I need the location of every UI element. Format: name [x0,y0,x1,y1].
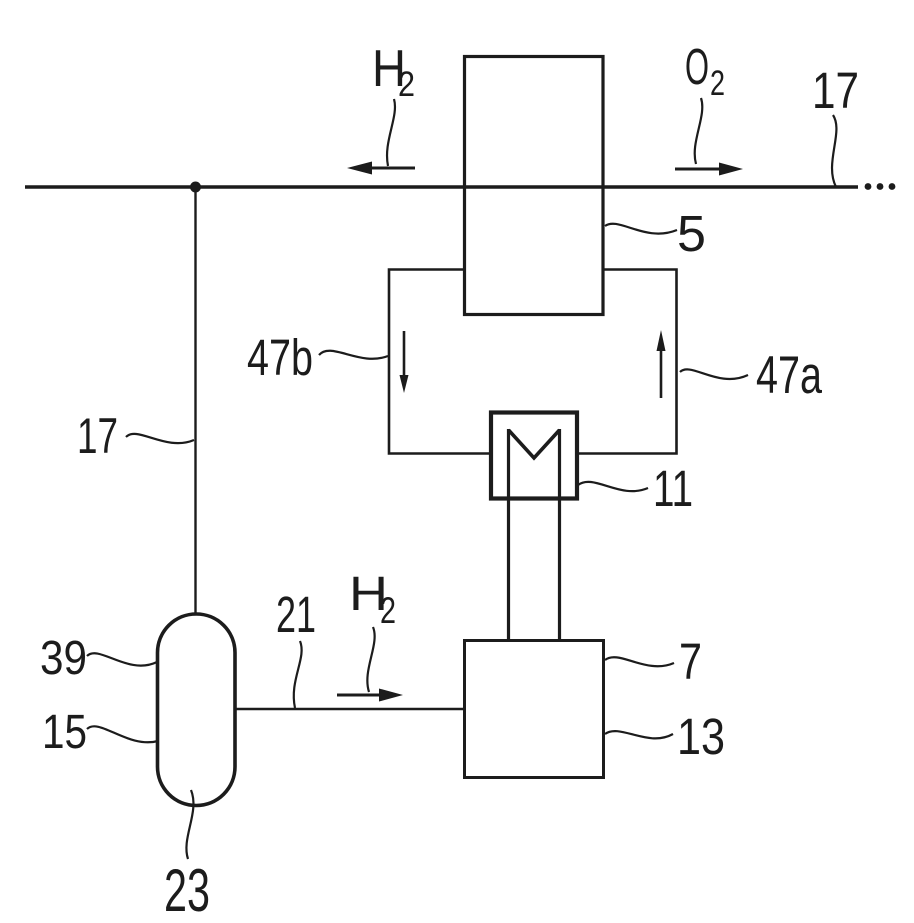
flow arrow O2 right (top) [675,163,743,176]
heat exchanger M symbol [509,430,560,458]
leader squiggle 15 [87,726,158,742]
svg-text:7: 7 [679,633,702,690]
leader squiggle H2 top [387,99,395,166]
wire cooling loop left 47b [389,270,489,454]
svg-text:21: 21 [276,586,316,643]
svg-text:47b: 47b [247,329,313,386]
leader squiggle 47b [319,351,388,359]
leader squiggle 17 left [126,434,194,443]
wire cooling loop right 47a [578,270,677,454]
svg-text:5: 5 [677,205,706,262]
svg-text:11: 11 [653,460,693,517]
gas treatment block 7/13 [465,641,604,778]
leader squiggle 5 [605,224,677,234]
heat exchanger 11 box [491,413,577,499]
node junction dot [190,182,201,193]
svg-text:47a: 47a [756,346,822,405]
leader squiggle 7 [605,657,674,666]
heat exchanger pipes down to 7 [507,429,510,641]
flow arrow H2 right (bottom pipe) [337,689,403,702]
svg-text:39: 39 [40,632,87,685]
vessel 15 (capsule separator) [158,614,236,806]
wire vertical from junction to vessel [194,187,196,614]
flow arrow down (47b side) [400,331,409,393]
leader squiggle 39 [87,653,157,665]
leader squiggle 21 [294,641,302,708]
leader squiggle 47a [680,369,748,379]
svg-text:O: O [685,38,709,95]
leader squiggle 11 [578,482,648,491]
leader squiggle 13 [605,731,673,738]
leader squiggle H2 bottom [367,627,374,692]
svg-text:2: 2 [710,64,725,103]
svg-text:15: 15 [42,706,87,759]
ellipsis continuation dots [865,183,896,190]
leader squiggle 23 [186,790,193,859]
svg-text:13: 13 [677,708,725,765]
svg-text:17: 17 [812,62,859,119]
flow arrow up (47a side) [657,330,666,398]
svg-text:23: 23 [164,857,210,923]
leader squiggle O2 [695,98,703,164]
leader squiggle 17 top right [832,115,836,187]
svg-text:2: 2 [380,590,396,631]
flow arrow H2 left (top) [347,162,415,175]
wire pipe 21 vessel to block 13 [235,708,464,711]
svg-text:2: 2 [398,65,415,104]
electrolyzer block 5 [465,57,604,315]
svg-text:17: 17 [77,408,118,464]
wire main line 17 (top horizontal) [25,185,858,188]
